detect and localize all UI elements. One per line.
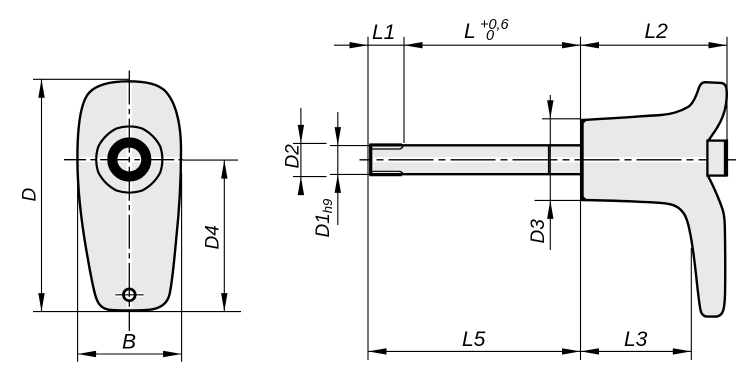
shaft top edge <box>369 144 582 146</box>
vertical centerline front view <box>128 71 130 332</box>
pin tip over-ball bottom edge <box>370 173 403 176</box>
pin shaft body <box>369 145 582 174</box>
dimension D stem <box>41 79 43 311</box>
lanyard hole <box>123 289 135 301</box>
D2 extension line bottom <box>293 176 327 178</box>
top dimension line <box>334 44 727 46</box>
shaft bottom edge <box>369 173 582 175</box>
arrow at ball step (points left) <box>404 42 423 48</box>
svg-text:+0,6: +0,6 <box>480 17 510 33</box>
svg-text:B: B <box>122 331 136 354</box>
button recess contour circle <box>96 126 162 192</box>
D2 stem <box>300 108 302 195</box>
arrow D3 bottom (outside, points up) <box>547 200 553 219</box>
arrow L3 left (points left) <box>581 348 600 354</box>
bottom dimension line <box>368 350 691 352</box>
pin tip neck top line <box>372 148 400 150</box>
extension line grip hub face <box>580 37 582 360</box>
svg-text:L1: L1 <box>372 21 395 44</box>
arrow D3 top (outside, points down) <box>547 100 553 119</box>
svg-text:L5: L5 <box>462 328 486 351</box>
button end (side view) <box>707 141 725 176</box>
arrow L3 right (points right) <box>673 348 692 354</box>
extension line B right <box>181 173 183 362</box>
centerline halo horizontal <box>80 157 180 162</box>
svg-text:D3: D3 <box>528 219 549 244</box>
extension line bottom (D / D4) <box>33 311 241 313</box>
shaft centerline halo <box>374 157 736 162</box>
arrow L2 left (points left) <box>581 42 600 48</box>
arrow D1 top (outside, points down) <box>335 127 341 146</box>
arrow D4 up <box>221 160 227 179</box>
grip hub left face <box>581 120 584 200</box>
svg-text:L2: L2 <box>645 20 669 43</box>
label D1 h9 <box>313 199 335 238</box>
extension line ball step <box>403 37 405 143</box>
extension line top (D) <box>33 78 129 80</box>
centerline halo vertical <box>127 84 132 308</box>
D3 stem <box>549 95 551 250</box>
hole horizontal centerline <box>116 294 144 296</box>
svg-text:0: 0 <box>486 28 494 44</box>
D3 extension line top <box>542 118 581 120</box>
grip body outline (front view) <box>77 81 181 310</box>
extension line D4 top <box>183 159 238 161</box>
arrow D1 bottom (outside, points up) <box>335 174 341 193</box>
arrow L5 left (points left) <box>368 348 387 354</box>
svg-text:L: L <box>464 20 476 43</box>
hub chamfer top <box>581 119 587 124</box>
release button ring <box>112 143 146 177</box>
D1 extension line top <box>330 145 369 147</box>
arrow L2 right (points right) <box>709 42 728 48</box>
button right face thick <box>724 140 728 177</box>
svg-text:D2: D2 <box>283 144 304 169</box>
dimension D4 stem <box>223 160 225 312</box>
arrow D down <box>38 293 44 312</box>
pin tip over-ball top edge <box>370 143 403 146</box>
extension line B left <box>77 173 79 362</box>
svg-text:L3: L3 <box>624 328 648 351</box>
hub chamfer bottom <box>581 195 587 200</box>
arrow B left <box>78 351 97 357</box>
arrow B right <box>163 351 182 357</box>
extension line pin left end <box>367 37 369 360</box>
D1 stem <box>337 112 339 225</box>
pin left face <box>369 146 372 174</box>
ball step bottom <box>400 171 403 174</box>
svg-text:D: D <box>20 188 41 202</box>
extension line wing corner (L3) <box>690 248 692 360</box>
arrow D up <box>38 79 44 98</box>
arrow D2 top (outside, points down) <box>298 125 304 143</box>
D1 extension line bottom <box>330 173 369 175</box>
dimension B line <box>78 353 182 355</box>
arrow D4 down <box>221 293 227 312</box>
extension line button right <box>726 37 728 141</box>
ball step top <box>400 146 403 149</box>
svg-text:D1h9: D1h9 <box>313 199 335 238</box>
shaft centerline <box>360 159 737 161</box>
arrow L5 right (points right) <box>562 348 581 354</box>
centerline halo hole <box>116 293 143 298</box>
D2 extension line top <box>293 142 327 144</box>
arrow D2 bottom (outside, points up) <box>298 177 304 196</box>
D3 extension line bottom <box>535 199 582 201</box>
collar step line <box>548 146 550 173</box>
svg-text:D4: D4 <box>203 225 224 249</box>
grip side view body <box>582 82 727 316</box>
horizontal centerline front view <box>64 159 183 161</box>
arrow L1 left (outside, points right) <box>350 42 369 48</box>
pin tip neck bottom line <box>372 170 400 172</box>
arrow L right (points right) <box>562 42 581 48</box>
